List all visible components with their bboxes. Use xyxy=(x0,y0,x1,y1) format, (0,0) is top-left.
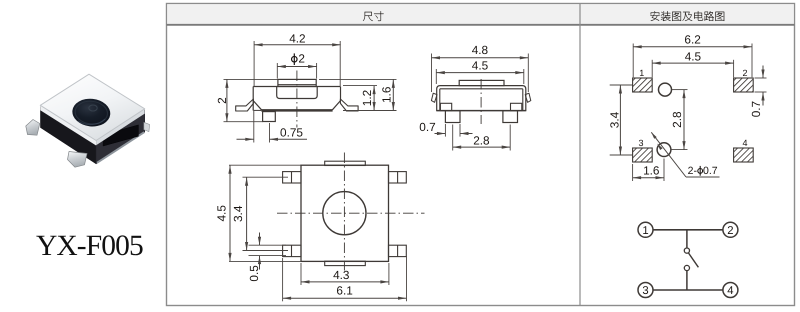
svg-text:4.5: 4.5 xyxy=(472,59,489,73)
svg-text:4.5: 4.5 xyxy=(685,50,702,64)
svg-text:4.2: 4.2 xyxy=(289,31,305,45)
svg-text:3.4: 3.4 xyxy=(608,111,622,128)
svg-text:0.7: 0.7 xyxy=(749,101,763,117)
svg-text:2: 2 xyxy=(727,225,733,237)
svg-text:4.5: 4.5 xyxy=(215,205,229,222)
svg-text:6.2: 6.2 xyxy=(684,33,700,47)
svg-text:YX-F005: YX-F005 xyxy=(36,230,143,262)
svg-text:4.8: 4.8 xyxy=(472,43,489,57)
svg-text:2.8: 2.8 xyxy=(670,111,684,128)
svg-text:3: 3 xyxy=(638,138,643,148)
svg-text:1.2: 1.2 xyxy=(360,90,374,106)
svg-text:1.6: 1.6 xyxy=(643,163,660,177)
svg-text:4: 4 xyxy=(727,285,733,297)
svg-text:6.1: 6.1 xyxy=(336,283,352,297)
svg-text:3.4: 3.4 xyxy=(231,205,245,222)
svg-text:4.3: 4.3 xyxy=(333,268,350,282)
svg-text:0.5: 0.5 xyxy=(247,265,261,282)
svg-text:0.7: 0.7 xyxy=(703,165,718,177)
svg-text:2.8: 2.8 xyxy=(473,134,490,148)
svg-text:1: 1 xyxy=(639,68,644,78)
svg-text:4: 4 xyxy=(742,138,747,148)
svg-text:2: 2 xyxy=(215,97,229,104)
svg-text:2-: 2- xyxy=(688,165,698,177)
svg-text:0.75: 0.75 xyxy=(280,126,303,140)
svg-text:2: 2 xyxy=(742,68,747,78)
svg-text:0.7: 0.7 xyxy=(419,120,435,134)
svg-text:1.6: 1.6 xyxy=(379,86,393,103)
svg-text:2: 2 xyxy=(298,51,305,65)
svg-text:1: 1 xyxy=(642,225,648,237)
svg-text:3: 3 xyxy=(642,285,648,297)
